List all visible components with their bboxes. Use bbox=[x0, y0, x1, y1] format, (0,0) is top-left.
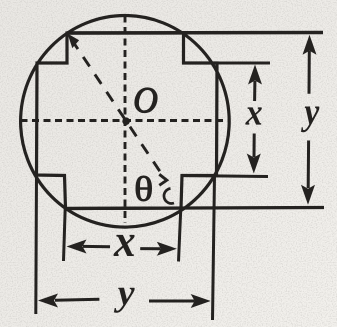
dim shaft bottom-y left bbox=[55, 299, 99, 300]
extension line below left inner (x=65) bbox=[64, 208, 66, 261]
label theta bbox=[136, 176, 152, 201]
extension line bottom edge (y=208) bbox=[66, 208, 325, 209]
dim shaft bottom-x left bbox=[83, 245, 110, 248]
dashed horizontal diameter bbox=[21, 119, 230, 122]
dim arrow bottom-y left bbox=[38, 294, 58, 308]
dim arrow bottom-y right bbox=[191, 294, 211, 308]
chevron arrowhead on diagonal bbox=[159, 174, 167, 185]
extension line below right inner (x=180) bbox=[179, 208, 181, 262]
label y (bottom dim) bbox=[114, 288, 135, 313]
arrowhead of diagonal at top-left corner bbox=[68, 34, 80, 49]
extension line far-left (x=36) bbox=[34, 175, 38, 314]
label x (right dim) bbox=[245, 107, 261, 124]
dashed vertical diameter bbox=[124, 16, 127, 224]
label x (bottom dim) bbox=[114, 235, 135, 256]
extension line top (y=33) bbox=[67, 31, 323, 35]
circle bbox=[21, 16, 230, 228]
dim shaft right-x lower bbox=[253, 134, 256, 158]
dim shaft right-y upper bbox=[308, 51, 311, 94]
center dot O bbox=[122, 117, 130, 125]
dim shaft bottom-y right bbox=[149, 300, 195, 303]
dim arrow bottom-x right bbox=[157, 242, 177, 256]
extension line lower-right (y=175.5) bbox=[182, 176, 268, 177]
extension line upper-right (y=63) bbox=[184, 62, 271, 65]
angle arc at corner bbox=[164, 189, 174, 204]
dim shaft right-y lower bbox=[307, 141, 310, 189]
label y (right dim) bbox=[301, 107, 319, 133]
dim arrow right-y up bbox=[303, 35, 317, 55]
dim arrow right-y down bbox=[301, 185, 315, 205]
dim shaft right-x upper bbox=[253, 81, 256, 101]
dim shaft bottom-x right bbox=[140, 247, 160, 250]
dim arrow right-x up bbox=[248, 65, 262, 85]
dim arrow bottom-x left bbox=[67, 240, 87, 254]
extension line far-right (x=213) bbox=[213, 176, 215, 321]
cross outline bbox=[37, 33, 218, 209]
dim arrow right-x down bbox=[247, 154, 261, 174]
label O (center) bbox=[135, 88, 157, 113]
dashed diagonal radius bbox=[72, 40, 162, 174]
